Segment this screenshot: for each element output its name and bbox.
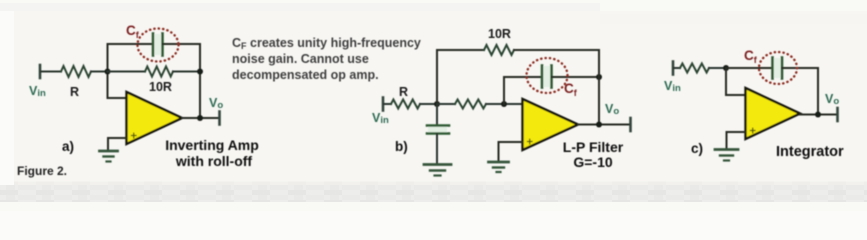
capacitor Cf plates (b) (542, 66, 552, 88)
output junction dot (a) (197, 115, 203, 121)
junction dot feedback/10R (a) (197, 69, 203, 75)
op-amp U1 (a) (127, 92, 183, 144)
svg-text:CF creates unity high-frequenc: CF creates unity high-frequency (232, 36, 421, 51)
wire Vin to R (c) (674, 67, 680, 69)
svg-text:c): c) (691, 141, 703, 156)
svg-text:a): a) (62, 139, 74, 154)
output terminal Vo (c) (836, 108, 839, 121)
svg-text:with roll-off: with roll-off (175, 153, 253, 169)
node B1 junction dot (b) (434, 101, 440, 107)
wire non-inverting input to ground (b) (499, 142, 523, 161)
wire R2 to node B2 (b) (486, 103, 522, 105)
svg-text:decompensated op amp.: decompensated op amp. (232, 68, 379, 82)
highlight ellipse around Cf (b) (527, 58, 568, 93)
wire non-inverting input to ground (c) (727, 132, 746, 148)
wire right feedback vertical (a) (199, 44, 201, 118)
ground symbol (b) (489, 162, 509, 172)
svg-text:10R: 10R (488, 27, 511, 41)
op-amp U3 (c) (746, 88, 801, 139)
capacitor Cf plates (c) (773, 58, 783, 79)
wire non-inverting input to ground (a) (108, 138, 126, 150)
wire node B1 down to C1 (b) (436, 104, 438, 125)
wire Vin to R (b) (384, 103, 391, 105)
highlight ellipse around Cf (c) (759, 52, 797, 84)
wire node B1 up to feedback (b) (436, 50, 438, 104)
wire node C1 to Cf (c) (726, 67, 772, 69)
resistor R2 (b) (455, 100, 486, 109)
node A junction dot (a) (105, 69, 111, 75)
resistor R1 value R (b) (391, 100, 420, 109)
output terminal Vo (b) (629, 118, 632, 131)
wire Cf to right corner (c) (782, 67, 818, 69)
wire Vin to R1 (a) (41, 71, 61, 73)
op-amp U2 plus pin marker (b) (528, 139, 533, 144)
svg-text:Figure 2.: Figure 2. (17, 164, 67, 178)
resistor R1 (c) (680, 64, 709, 73)
input terminal Vin (a) (39, 65, 42, 78)
ground symbol (a) (100, 151, 118, 162)
wire R1 to node C1 (c) (709, 67, 726, 69)
resistor R1 value R (a) (61, 66, 91, 77)
wire top feedback left (b) (437, 49, 484, 51)
wire R1 to node A (a) (91, 71, 108, 73)
wire output (a) (182, 117, 219, 119)
node B2 junction dot (b) (501, 101, 507, 107)
wire node A to R2 (a) (108, 71, 146, 73)
wire R1 to node B1 (b) (420, 103, 437, 105)
note text block (232, 36, 421, 82)
output junction dot (b) (596, 122, 602, 128)
capacitor C1 plates (b) (427, 126, 449, 134)
resistor R3 value 10R (b) (484, 45, 514, 55)
wire inverting input (a) (108, 97, 127, 99)
svg-text:G=-10: G=-10 (573, 154, 613, 170)
wire output (b) (578, 124, 630, 126)
wire Cf loop right (b) (552, 76, 599, 78)
svg-text:10R: 10R (149, 80, 172, 94)
wire Cf loop left (b) (504, 76, 542, 78)
svg-text:Integrator: Integrator (776, 144, 844, 160)
wire feedback vertical right (c) (817, 68, 819, 115)
svg-text:L-P Filter: L-P Filter (563, 139, 624, 155)
wire C1 to ground (b) (436, 134, 438, 163)
input terminal Vin (b) (382, 98, 385, 111)
junction dot Cf loop to output line (b) (596, 74, 602, 80)
wire top feedback left (a) (108, 43, 153, 45)
wire top feedback right (b) (514, 49, 599, 51)
ground symbol (c) (715, 150, 738, 161)
svg-text:b): b) (395, 139, 408, 154)
output junction dot (c) (815, 112, 821, 118)
resistor R2 value 10R (a) (145, 67, 173, 77)
wire output (c) (800, 114, 837, 116)
ground symbol below C1 (b) (424, 165, 451, 176)
output terminal Vo (a) (218, 112, 221, 125)
capacitor Cf plates (a) (153, 34, 163, 56)
wire node C1 down to op-amp input (c) (726, 68, 745, 95)
svg-text:noise gain. Cannot use: noise gain. Cannot use (232, 52, 369, 66)
wire top feedback right (a) (163, 43, 200, 45)
op-amp U1 plus pin marker (a) (132, 133, 137, 138)
op-amp U2 (b) (523, 99, 579, 150)
svg-text:Inverting Amp: Inverting Amp (165, 137, 259, 153)
wire right feedback vertical (b) (598, 50, 600, 124)
wire node B1 to R2 (b) (437, 103, 455, 105)
wire node B2 up to Cf loop (b) (503, 77, 505, 104)
node C1 junction dot (c) (723, 65, 729, 71)
op-amp U3 plus pin marker (c) (751, 128, 756, 133)
highlight ellipse around Cf (a) (138, 29, 179, 62)
svg-text:R: R (399, 85, 408, 99)
wire node A vertical (a) (107, 44, 109, 98)
svg-text:R: R (70, 85, 79, 99)
input terminal Vin (c) (672, 62, 675, 75)
wire R2 to output node (a) (173, 71, 200, 73)
